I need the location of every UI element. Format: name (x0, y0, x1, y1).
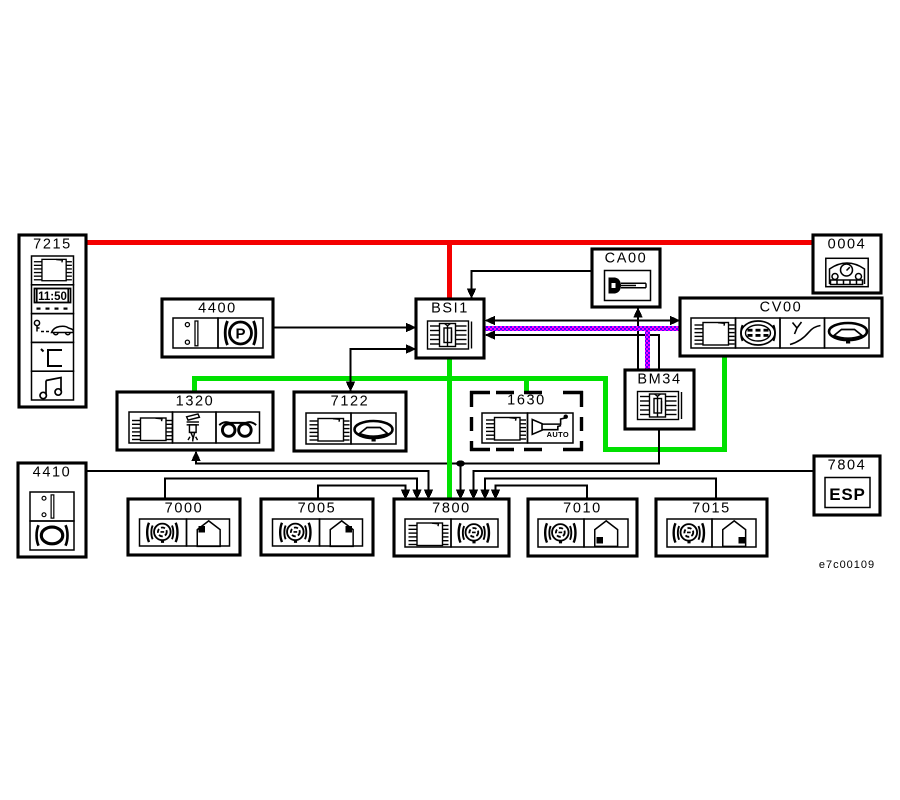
svg-text:4410: 4410 (33, 465, 72, 481)
wire green CAN: 1320 junction up-left corner, across to CV00 loop (195, 356, 725, 450)
svg-text:7122: 7122 (331, 394, 370, 410)
wire 7005 to 7800 (318, 486, 406, 500)
svg-text:7800: 7800 (432, 501, 471, 517)
svg-text:BSI1: BSI1 (431, 301, 469, 317)
wire BSI1 to 7122 (351, 349, 408, 382)
svg-text:1320: 1320 (176, 394, 215, 410)
svg-text:CA00: CA00 (605, 251, 648, 267)
wire BM34 to BSI1 (493, 335, 659, 370)
svg-text:7215: 7215 (33, 237, 72, 253)
wire red drop to BSI1 (447, 243, 452, 299)
svg-text:e7c00109: e7c00109 (819, 559, 875, 571)
wire 7015 to 7800 (485, 479, 716, 500)
box CA00 ignition switch (592, 249, 660, 307)
box 7800 ABS/ESP unit (394, 499, 509, 556)
box 7215 multifunction display (19, 235, 86, 407)
wire BM34 to CA00 (637, 316, 639, 370)
svg-text:0004: 0004 (828, 237, 867, 253)
svg-text:7010: 7010 (563, 501, 602, 517)
svg-text:4400: 4400 (198, 301, 237, 317)
wire red supply 7215 to 0004 (86, 240, 814, 245)
svg-text:7804: 7804 (828, 458, 867, 474)
box 7000 front left wheel sensor (128, 499, 240, 555)
wire 4400 to BSI1 (273, 327, 407, 329)
wire purple VAN BSI1 to CV00 (484, 326, 681, 331)
svg-text:7015: 7015 (692, 501, 731, 517)
box 7005 front right wheel sensor (261, 499, 373, 555)
wire CA00 to BSI1 top (472, 271, 593, 289)
wire green drop to 1630 (524, 378, 529, 392)
box 7804 ESP ECU (814, 456, 880, 515)
wire purple drop to BM34 (645, 329, 650, 370)
svg-text:7000: 7000 (165, 501, 204, 517)
svg-text:7005: 7005 (298, 501, 337, 517)
wire BSI1/CV00 data link (493, 320, 671, 322)
wire BM34 bottom to junction / 1320 (196, 429, 659, 464)
svg-text:ESP: ESP (829, 485, 865, 504)
svg-text:1630: 1630 (507, 393, 546, 409)
box 7010 rear left wheel sensor (528, 499, 637, 556)
box 7122 steering wheel module (294, 392, 406, 451)
box 0004 instrument cluster (813, 235, 881, 293)
box 7015 rear right wheel sensor (656, 499, 767, 556)
wire 7010 to 7800 (496, 486, 588, 500)
wire green BSI1 to 7800 (447, 358, 452, 500)
junction dot (456, 460, 465, 466)
box 1630 automatic gearbox ECU (optional, dashed) (470, 391, 583, 451)
box BM34 fuse box (625, 370, 694, 429)
wire 4410 to 7800 (86, 471, 429, 490)
box CV00 steering column module (680, 298, 882, 356)
wire 7804 to 7800 (474, 471, 815, 490)
wire 7000 to 7800 (165, 479, 417, 500)
svg-text:BM34: BM34 (637, 372, 681, 388)
svg-text:CV00: CV00 (760, 300, 803, 316)
wire junction to 7800 (460, 464, 462, 491)
box 1320 engine ECU (117, 392, 273, 450)
box 4410 horn switch (18, 463, 86, 557)
box BSI1 built-in systems interface (416, 299, 484, 358)
box 4400 parking brake switch (162, 299, 273, 357)
